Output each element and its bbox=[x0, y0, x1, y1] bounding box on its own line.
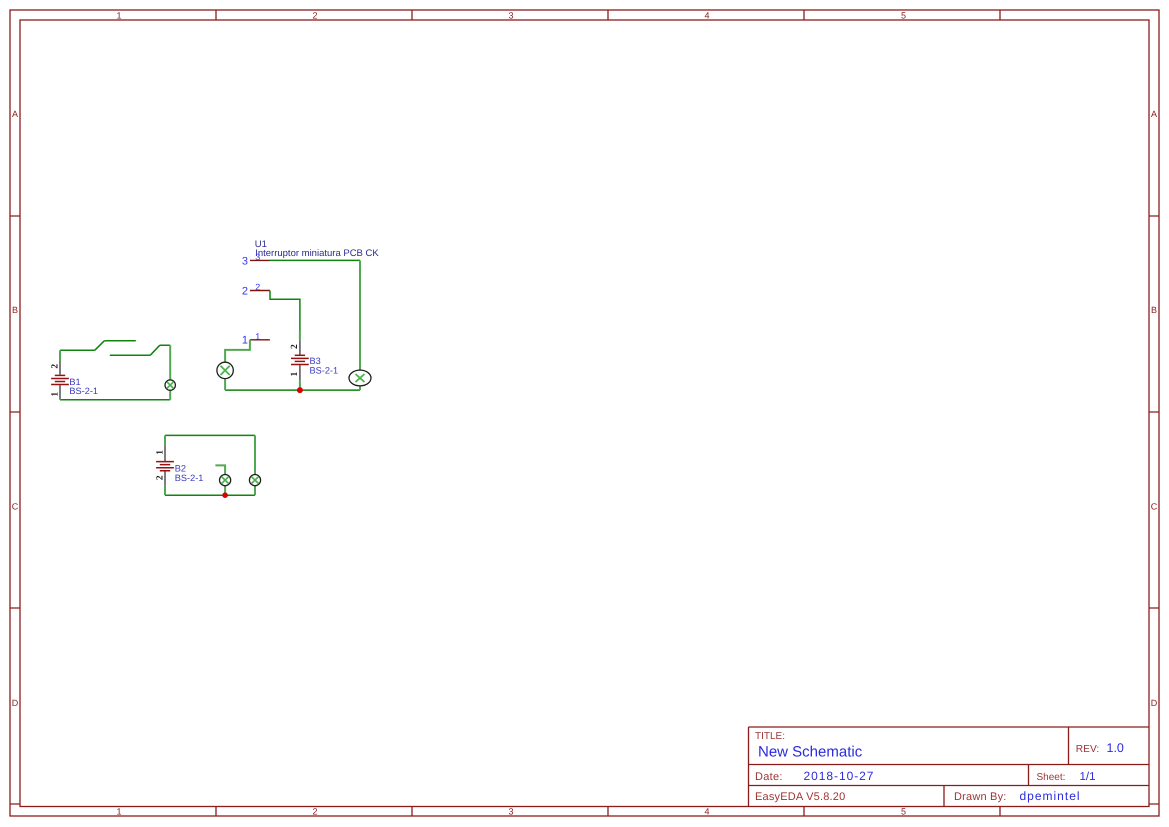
svg-text:BS-2-1: BS-2-1 bbox=[310, 366, 339, 376]
svg-text:Date:: Date: bbox=[755, 771, 783, 783]
svg-text:TITLE:: TITLE: bbox=[755, 731, 785, 742]
svg-text:1: 1 bbox=[242, 335, 248, 347]
svg-text:C: C bbox=[12, 502, 19, 512]
svg-text:Sheet:: Sheet: bbox=[1037, 772, 1066, 783]
svg-text:Interruptor miniatura PCB CK: Interruptor miniatura PCB CK bbox=[255, 248, 379, 259]
svg-text:1: 1 bbox=[155, 450, 165, 455]
svg-text:5: 5 bbox=[901, 807, 906, 817]
svg-text:2: 2 bbox=[312, 807, 317, 817]
svg-text:1: 1 bbox=[290, 371, 300, 376]
svg-text:1: 1 bbox=[255, 332, 260, 342]
svg-text:3: 3 bbox=[242, 255, 248, 267]
svg-text:REV:: REV: bbox=[1076, 744, 1099, 755]
svg-text:2: 2 bbox=[155, 475, 165, 480]
svg-text:1: 1 bbox=[116, 807, 121, 817]
svg-text:2: 2 bbox=[290, 344, 300, 349]
svg-text:BS-2-1: BS-2-1 bbox=[69, 386, 98, 396]
svg-text:D: D bbox=[1151, 698, 1158, 708]
svg-text:1.0: 1.0 bbox=[1107, 741, 1124, 755]
svg-text:B: B bbox=[12, 305, 18, 315]
svg-text:2: 2 bbox=[255, 282, 260, 292]
svg-text:2: 2 bbox=[312, 11, 317, 21]
svg-text:A: A bbox=[1151, 109, 1157, 119]
svg-text:2: 2 bbox=[242, 285, 248, 297]
svg-text:EasyEDA V5.8.20: EasyEDA V5.8.20 bbox=[755, 791, 845, 803]
svg-text:2: 2 bbox=[50, 364, 60, 369]
svg-text:3: 3 bbox=[255, 252, 260, 262]
svg-text:2018-10-27: 2018-10-27 bbox=[804, 769, 875, 783]
svg-text:A: A bbox=[12, 109, 18, 119]
svg-text:Drawn By:: Drawn By: bbox=[954, 791, 1007, 803]
svg-text:3: 3 bbox=[508, 11, 513, 21]
svg-text:1: 1 bbox=[116, 11, 121, 21]
svg-text:B: B bbox=[1151, 305, 1157, 315]
svg-text:5: 5 bbox=[901, 11, 906, 21]
svg-text:dpemintel: dpemintel bbox=[1020, 789, 1081, 803]
svg-text:New Schematic: New Schematic bbox=[758, 743, 863, 760]
svg-text:4: 4 bbox=[704, 807, 709, 817]
svg-text:D: D bbox=[12, 698, 19, 708]
svg-text:3: 3 bbox=[508, 807, 513, 817]
svg-text:1: 1 bbox=[50, 392, 60, 397]
svg-text:C: C bbox=[1151, 502, 1158, 512]
svg-text:B2: B2 bbox=[175, 464, 186, 474]
svg-text:4: 4 bbox=[704, 11, 709, 21]
svg-text:1/1: 1/1 bbox=[1080, 771, 1096, 783]
svg-text:BS-2-1: BS-2-1 bbox=[175, 473, 204, 483]
